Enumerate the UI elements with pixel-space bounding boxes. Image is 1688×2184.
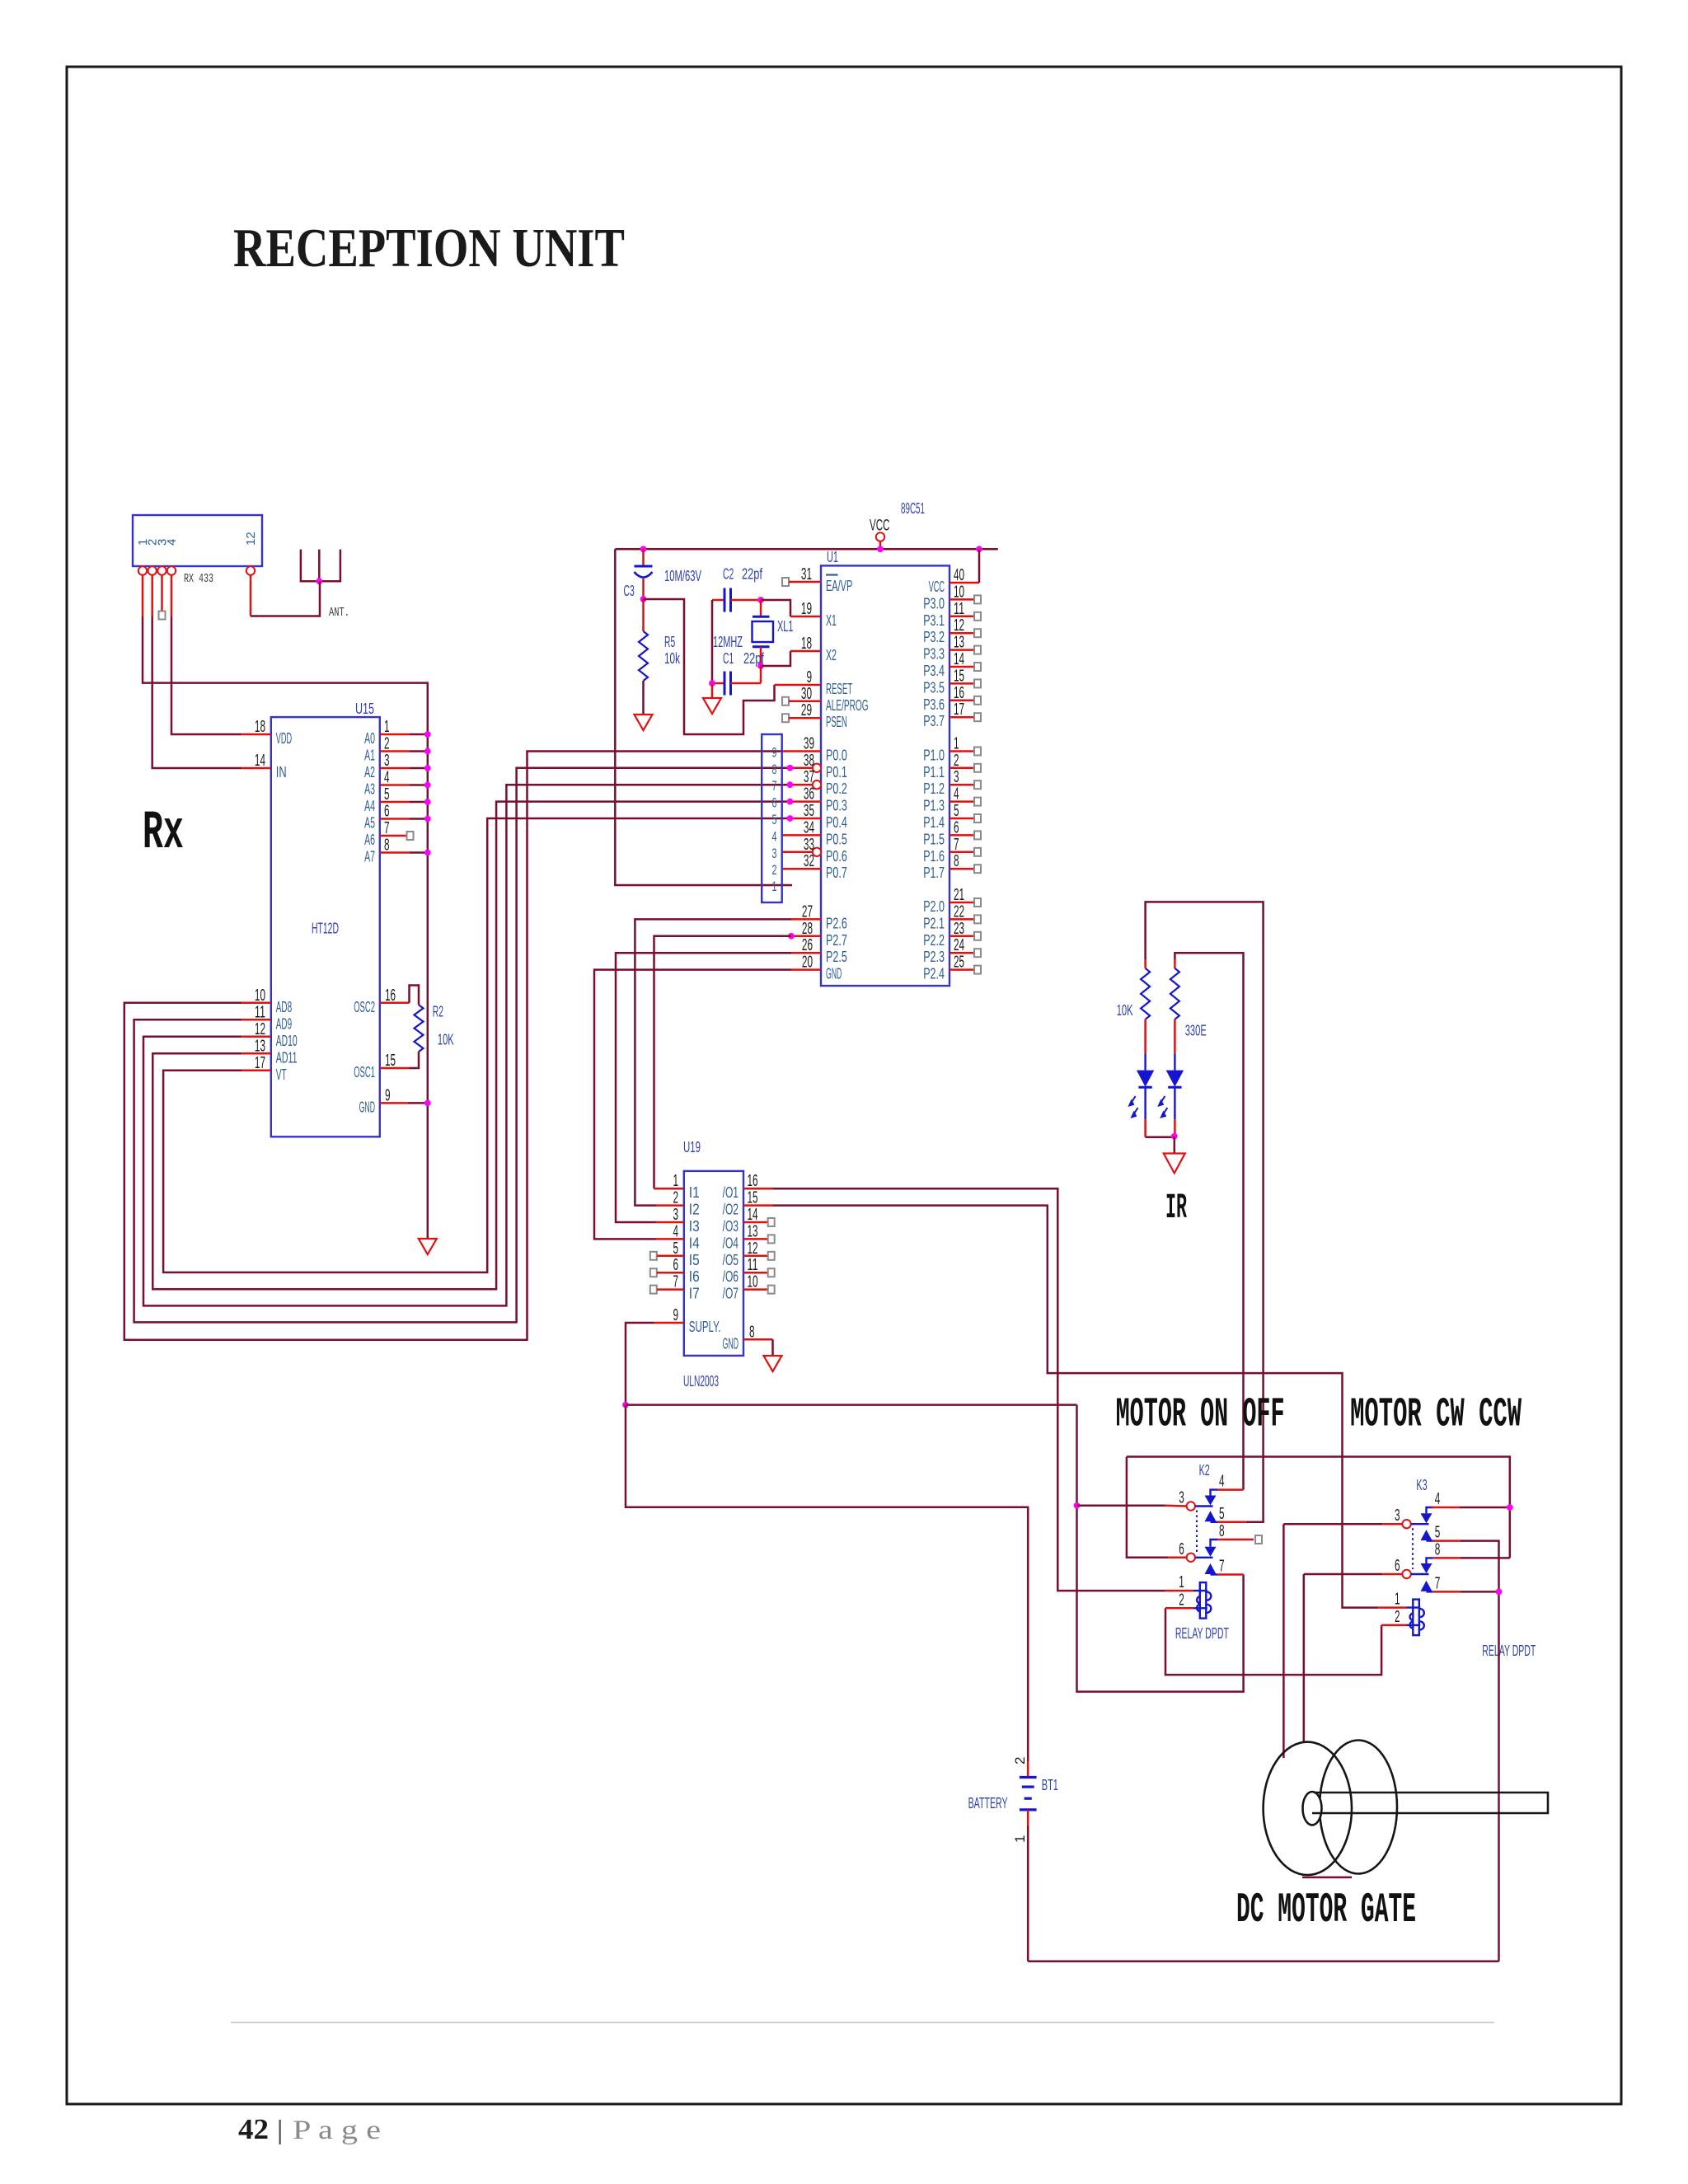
svg-text:BT1: BT1 bbox=[1042, 1777, 1058, 1793]
U1 pin 40 VCC bbox=[929, 549, 979, 595]
svg-text:SUPLY.: SUPLY. bbox=[689, 1319, 721, 1335]
svg-text:22pf: 22pf bbox=[742, 566, 763, 583]
U1 pin 35 P0.4 bbox=[787, 802, 847, 831]
wire RX pin4 to VDD bbox=[171, 616, 241, 735]
svg-text:37: 37 bbox=[804, 768, 814, 786]
U19 pin 5 I5 bbox=[650, 1240, 700, 1268]
RX433 pin 2 bbox=[146, 539, 160, 575]
svg-text:27: 27 bbox=[802, 902, 813, 921]
svg-text:EA/VP: EA/VP bbox=[826, 578, 852, 594]
svg-text:35: 35 bbox=[804, 802, 814, 820]
svg-text:AD10: AD10 bbox=[276, 1033, 298, 1049]
svg-text:12: 12 bbox=[748, 1240, 758, 1258]
svg-text:28: 28 bbox=[802, 920, 813, 938]
svg-text:I5: I5 bbox=[689, 1252, 700, 1268]
U1 pin 10 P3.0 bbox=[923, 583, 981, 612]
svg-text:PSEN: PSEN bbox=[826, 714, 847, 730]
U1 pin 20 GND bbox=[791, 954, 842, 982]
svg-text:17: 17 bbox=[954, 701, 964, 719]
svg-text:12MHZ: 12MHZ bbox=[713, 634, 743, 650]
svg-text:1: 1 bbox=[673, 1172, 678, 1190]
svg-text:U15: U15 bbox=[355, 701, 374, 717]
U19 pin 9 SUPLY. bbox=[654, 1306, 721, 1335]
U1 pin 14 P3.4 bbox=[923, 650, 981, 679]
U1 pin 3 P1.2 bbox=[923, 768, 981, 797]
svg-text:30: 30 bbox=[801, 685, 812, 703]
svg-text:14: 14 bbox=[748, 1206, 758, 1224]
svg-text:8: 8 bbox=[954, 852, 959, 870]
wire R2 to OSC1 bbox=[410, 1052, 420, 1068]
VCC net symbol bbox=[870, 518, 890, 553]
svg-text:13: 13 bbox=[954, 634, 964, 652]
U1 pin 30 ALE/PROG bbox=[782, 685, 869, 714]
ground under U19 bbox=[764, 1356, 782, 1371]
relay K2 pin4 contact bbox=[1205, 1473, 1225, 1506]
svg-text:ALE/PROG: ALE/PROG bbox=[826, 697, 869, 714]
svg-text:24: 24 bbox=[954, 936, 964, 954]
K2 pin6 net bbox=[1127, 1457, 1186, 1558]
svg-text:P2.0: P2.0 bbox=[923, 898, 945, 915]
svg-text:/O3: /O3 bbox=[723, 1218, 738, 1235]
wire K2 pin4 to R 330E bbox=[1175, 953, 1243, 1489]
svg-text:18: 18 bbox=[801, 635, 812, 653]
svg-text:I6: I6 bbox=[689, 1268, 700, 1285]
bus connector pin 5 bbox=[772, 812, 777, 827]
LED D2 (IR) bbox=[1159, 1053, 1184, 1119]
relay K2 pin5 contact bbox=[1205, 1505, 1225, 1523]
svg-text:/O7: /O7 bbox=[723, 1286, 738, 1302]
svg-text:34: 34 bbox=[804, 818, 814, 837]
svg-text:22: 22 bbox=[954, 902, 964, 921]
svg-text:BATTERY: BATTERY bbox=[968, 1795, 1008, 1811]
U1 pin 9 RESET bbox=[806, 668, 852, 697]
relay K2 label bbox=[1199, 1462, 1210, 1479]
svg-text:25: 25 bbox=[954, 954, 964, 972]
svg-text:P1.3: P1.3 bbox=[923, 798, 945, 814]
U19 refdes bbox=[683, 1139, 701, 1155]
U1 pin 5 P1.4 bbox=[923, 802, 981, 831]
relay K3 pole link bbox=[1412, 1528, 1414, 1569]
ANT. label bbox=[329, 606, 349, 620]
wire GND20 to I4 bbox=[594, 970, 791, 1240]
svg-text:9: 9 bbox=[673, 1306, 678, 1324]
C1 label bbox=[723, 650, 734, 667]
svg-text:GND: GND bbox=[826, 966, 842, 982]
U15 pin 18 VDD bbox=[241, 718, 292, 747]
U15 pin 17 VT bbox=[241, 1054, 287, 1083]
svg-text:22pf: 22pf bbox=[743, 650, 765, 667]
battery BT1 bbox=[1020, 1761, 1037, 1825]
wire C2 C1 left bbox=[711, 600, 714, 683]
relay K3 pin5 contact bbox=[1421, 1524, 1441, 1542]
U15 pin 6 A5 bbox=[364, 803, 431, 832]
SUPLY junction dot bbox=[622, 1402, 629, 1408]
supply junction dot K2 pin3 bbox=[1074, 1502, 1081, 1509]
wire RX pin1 to bus bbox=[143, 616, 428, 1240]
U1 pin 21 P2.0 bbox=[923, 886, 981, 915]
svg-text:P1.4: P1.4 bbox=[923, 814, 945, 831]
C3 label bbox=[624, 583, 635, 599]
RX433 pin1 red lead bbox=[142, 575, 144, 616]
relay K2 pole link bbox=[1196, 1511, 1198, 1553]
wire crystal to X2 bbox=[761, 651, 790, 666]
crystal XL1 bbox=[753, 600, 774, 666]
U1 pin 26 P2.5 bbox=[791, 936, 847, 965]
K3 pin8 stub bbox=[1433, 1557, 1510, 1559]
svg-text:R2: R2 bbox=[433, 1004, 443, 1020]
bus connector pin 4 bbox=[772, 828, 777, 844]
svg-text:23: 23 bbox=[954, 920, 964, 938]
K3 coil pin1 stub bbox=[1378, 1606, 1406, 1609]
svg-text:P0.6: P0.6 bbox=[826, 848, 847, 865]
bus connector pin 7 bbox=[772, 778, 777, 794]
U19 pin 16 /O1 bbox=[723, 1172, 773, 1201]
relay K2 type label bbox=[1175, 1625, 1229, 1642]
svg-text:Rx: Rx bbox=[143, 802, 184, 864]
K2 pin6 link wire bbox=[1127, 1457, 1510, 1558]
U1 pin 27 P2.6 bbox=[791, 902, 847, 931]
relay K3 type label bbox=[1482, 1643, 1536, 1659]
svg-text:4: 4 bbox=[772, 828, 777, 844]
svg-text:C3: C3 bbox=[624, 583, 635, 599]
svg-text:OSC1: OSC1 bbox=[354, 1064, 375, 1080]
svg-text:12: 12 bbox=[954, 616, 964, 635]
U1 pin 24 P2.3 bbox=[923, 936, 981, 965]
VCC rail bbox=[615, 548, 998, 551]
svg-text:7: 7 bbox=[1219, 1558, 1225, 1576]
svg-text:IN: IN bbox=[276, 764, 287, 780]
U1 pin 29 PSEN bbox=[782, 701, 847, 730]
svg-text:2: 2 bbox=[1012, 1757, 1028, 1765]
wire SUPLY net bbox=[626, 1323, 654, 1405]
wire ULN GND to ground bbox=[771, 1339, 774, 1356]
BT1 pin 2 label bbox=[1012, 1757, 1028, 1765]
relay K2 pin3 common bbox=[1179, 1489, 1212, 1511]
svg-text:/O1: /O1 bbox=[723, 1184, 738, 1201]
svg-text:P0.4: P0.4 bbox=[826, 814, 847, 831]
U19 pin 7 I7 bbox=[650, 1273, 700, 1302]
svg-text:GND: GND bbox=[359, 1099, 375, 1115]
svg-text:P2.6: P2.6 bbox=[826, 915, 847, 931]
svg-text:P3.4: P3.4 bbox=[923, 663, 945, 679]
svg-text:8: 8 bbox=[749, 1323, 755, 1341]
svg-text:5: 5 bbox=[954, 802, 959, 820]
U15 pin 9 GND bbox=[359, 1086, 431, 1115]
U1 pin 28 P2.7 bbox=[788, 920, 847, 949]
U1 pin 32 P0.7 bbox=[783, 852, 847, 881]
U1 pin 23 P2.2 bbox=[923, 920, 981, 949]
svg-text:12: 12 bbox=[255, 1020, 265, 1038]
svg-text:P3.7: P3.7 bbox=[923, 713, 945, 729]
10K label bbox=[1117, 1002, 1133, 1019]
svg-text:8: 8 bbox=[772, 762, 777, 777]
U1 pin 17 P3.7 bbox=[923, 701, 981, 729]
MOTOR CW CCW label bbox=[1350, 1392, 1522, 1439]
svg-text:11: 11 bbox=[954, 600, 964, 618]
svg-text:13: 13 bbox=[748, 1222, 758, 1240]
svg-text:/O5: /O5 bbox=[723, 1252, 738, 1268]
svg-text:P2.1: P2.1 bbox=[923, 915, 945, 931]
bottom rail bbox=[1028, 1961, 1498, 1963]
wire P2.5 to I3 bbox=[616, 953, 791, 1222]
resistor R5 bbox=[639, 599, 648, 715]
svg-text:XL1: XL1 bbox=[777, 618, 794, 635]
svg-text:10K: 10K bbox=[1117, 1002, 1133, 1019]
svg-text:P0.5: P0.5 bbox=[826, 831, 847, 847]
ground under R5 bbox=[635, 715, 653, 730]
svg-text:4: 4 bbox=[673, 1222, 678, 1240]
RX433 module box bbox=[133, 515, 262, 566]
U15 pin 13 AD11 bbox=[241, 1037, 297, 1066]
U19 pin 4 I4 bbox=[656, 1222, 700, 1251]
svg-text:10: 10 bbox=[255, 987, 265, 1005]
svg-text:VDD: VDD bbox=[276, 730, 292, 747]
bus connector pin 2 bbox=[772, 862, 777, 878]
svg-text:15: 15 bbox=[748, 1189, 758, 1207]
svg-text:R5: R5 bbox=[664, 634, 675, 650]
svg-text:31: 31 bbox=[801, 565, 812, 583]
svg-text:8: 8 bbox=[1435, 1540, 1441, 1558]
relay K3 pin6 common bbox=[1395, 1557, 1428, 1578]
svg-text:4: 4 bbox=[165, 539, 179, 546]
K3 pin7 net bbox=[1433, 1589, 1503, 1596]
svg-text:P1.1: P1.1 bbox=[923, 764, 945, 780]
svg-text:ANT.: ANT. bbox=[329, 606, 349, 620]
svg-text:2: 2 bbox=[1179, 1591, 1184, 1609]
K2 pin3 stub bbox=[1165, 1505, 1187, 1507]
svg-text:/O2: /O2 bbox=[723, 1202, 738, 1218]
X1 red stub bbox=[790, 616, 821, 618]
svg-text:ULN2003: ULN2003 bbox=[683, 1373, 719, 1390]
svg-text:2: 2 bbox=[1395, 1608, 1400, 1626]
svg-text:16: 16 bbox=[954, 684, 964, 702]
C2 value 22pf bbox=[742, 566, 763, 583]
U19 pin 11 /O6 bbox=[723, 1256, 775, 1285]
resistor R2 bbox=[415, 1005, 424, 1052]
U19 pin 14 /O3 bbox=[723, 1206, 775, 1235]
U1 pin 6 P1.5 bbox=[923, 818, 981, 847]
ground under C1 bbox=[703, 683, 721, 714]
U15 pin 8 A7 bbox=[364, 837, 431, 865]
svg-text:A7: A7 bbox=[364, 849, 375, 865]
U15 pin 11 AD9 bbox=[241, 1003, 292, 1032]
relay K2 pin6 common bbox=[1179, 1540, 1212, 1562]
svg-text:3: 3 bbox=[954, 768, 959, 786]
svg-text:32: 32 bbox=[804, 852, 814, 870]
bus connector pin 6 bbox=[772, 795, 777, 811]
svg-text:P2.5: P2.5 bbox=[826, 949, 847, 965]
svg-text:5: 5 bbox=[673, 1240, 678, 1258]
U15 pin 3 A2 bbox=[364, 752, 431, 780]
U15 refdes bbox=[355, 701, 374, 717]
U1 pin 11 P3.1 bbox=[923, 600, 981, 629]
relay K2 pin8 contact bbox=[1205, 1522, 1225, 1557]
svg-text:3: 3 bbox=[772, 846, 777, 861]
LED D2 bottom lead bbox=[1174, 1119, 1176, 1136]
wire K2 pin5 to R 10K bbox=[1146, 902, 1264, 1521]
RX433 pin2 red lead bbox=[151, 575, 153, 616]
R2 label bbox=[433, 1004, 443, 1020]
svg-text:6: 6 bbox=[673, 1256, 678, 1274]
wire AD9 loop bbox=[134, 768, 790, 1323]
U1 pin 38 P0.1 bbox=[787, 752, 847, 780]
svg-text:P2.2: P2.2 bbox=[923, 932, 945, 949]
U15 pin 12 AD10 bbox=[241, 1020, 297, 1049]
svg-text:P1.5: P1.5 bbox=[923, 831, 945, 847]
svg-text:P2.3: P2.3 bbox=[923, 949, 945, 965]
svg-text:A1: A1 bbox=[364, 748, 375, 764]
svg-text:K3: K3 bbox=[1416, 1477, 1427, 1493]
svg-text:6: 6 bbox=[772, 795, 777, 811]
svg-text:10k: 10k bbox=[664, 650, 681, 667]
K3 coil pin2 stub bbox=[1381, 1624, 1406, 1627]
U1 pin 22 P2.1 bbox=[923, 902, 981, 931]
svg-text:A6: A6 bbox=[364, 832, 375, 848]
title RECEPTION UNIT bbox=[233, 218, 625, 279]
svg-text:11: 11 bbox=[748, 1256, 758, 1274]
U1 pin 15 P3.5 bbox=[923, 667, 981, 696]
svg-text:P1.2: P1.2 bbox=[923, 780, 945, 797]
capacitor C1 bbox=[712, 666, 761, 696]
svg-text:RELAY DPDT: RELAY DPDT bbox=[1175, 1625, 1229, 1642]
U19 pin 3 I3 bbox=[656, 1206, 700, 1235]
svg-text:1: 1 bbox=[1179, 1573, 1184, 1591]
U1 pin 37 P0.2 bbox=[787, 768, 847, 797]
U1 pin 2 P1.1 bbox=[923, 752, 981, 780]
U19 pin 6 I6 bbox=[650, 1256, 700, 1285]
U19 pin 12 /O5 bbox=[723, 1240, 775, 1268]
K2 pin7 stub bbox=[1217, 1573, 1244, 1576]
svg-text:VT: VT bbox=[276, 1066, 287, 1083]
svg-text:5: 5 bbox=[1219, 1505, 1225, 1523]
svg-text:P0.0: P0.0 bbox=[826, 748, 847, 764]
IC U1 89C51 box bbox=[821, 565, 949, 986]
R5 value 10k bbox=[664, 650, 681, 667]
K2 pin8 stub bbox=[1217, 1535, 1262, 1544]
wire reset net bbox=[644, 599, 775, 734]
RX433 pin 3 bbox=[156, 539, 170, 575]
svg-text:10K: 10K bbox=[438, 1031, 454, 1047]
svg-text:P2.7: P2.7 bbox=[826, 932, 847, 949]
svg-text:26: 26 bbox=[802, 936, 813, 954]
svg-text:RELAY DPDT: RELAY DPDT bbox=[1482, 1643, 1536, 1659]
svg-text:14: 14 bbox=[954, 650, 964, 668]
svg-text:10: 10 bbox=[954, 583, 964, 601]
svg-text:7: 7 bbox=[384, 819, 390, 837]
svg-text:3: 3 bbox=[1395, 1507, 1400, 1525]
IR label bbox=[1165, 1188, 1187, 1228]
svg-text:X2: X2 bbox=[826, 647, 837, 663]
antenna junction dot bbox=[316, 578, 322, 584]
IC U15 HT12D box bbox=[271, 717, 380, 1137]
svg-text:89C51: 89C51 bbox=[901, 500, 925, 517]
svg-text:U1: U1 bbox=[827, 549, 838, 565]
svg-text:2: 2 bbox=[673, 1189, 678, 1207]
relay K3 label bbox=[1416, 1477, 1427, 1493]
ground under IR leds bbox=[1164, 1154, 1185, 1174]
svg-text:X1: X1 bbox=[826, 612, 837, 629]
svg-text:15: 15 bbox=[385, 1052, 396, 1070]
svg-text:7: 7 bbox=[673, 1273, 678, 1291]
X2 red stub bbox=[790, 650, 821, 653]
svg-text:40: 40 bbox=[954, 566, 964, 584]
RX433 pin12 red lead bbox=[250, 575, 252, 616]
U19 pin 8 GND bbox=[723, 1323, 773, 1352]
K2 coil pin1 stub bbox=[1165, 1590, 1193, 1592]
svg-text:17: 17 bbox=[255, 1054, 265, 1072]
svg-text:HT12D: HT12D bbox=[312, 921, 339, 937]
wire supply to battery plus bbox=[626, 1405, 1028, 1761]
svg-text:1: 1 bbox=[954, 735, 959, 753]
svg-text:I2: I2 bbox=[689, 1202, 700, 1218]
svg-text:I3: I3 bbox=[689, 1218, 700, 1235]
wire /O2 to K3 coil bbox=[773, 1206, 1379, 1608]
svg-text:9: 9 bbox=[806, 668, 812, 687]
svg-text:36: 36 bbox=[804, 785, 814, 804]
svg-text:42: 42 bbox=[238, 2113, 269, 2145]
U1 pin 12 P3.2 bbox=[923, 616, 981, 645]
svg-text:2: 2 bbox=[772, 862, 777, 878]
svg-text:P3.2: P3.2 bbox=[923, 629, 945, 645]
wire AD10 loop bbox=[143, 785, 790, 1305]
wire C2 to X1 bbox=[761, 600, 790, 616]
330E label bbox=[1185, 1022, 1207, 1038]
relay K2 coil bbox=[1179, 1573, 1211, 1619]
U15 pin 14 IN bbox=[241, 752, 287, 780]
wire RX pin12 to antenna bbox=[251, 581, 320, 616]
svg-text:AD8: AD8 bbox=[276, 999, 292, 1015]
svg-text:A4: A4 bbox=[364, 798, 375, 814]
DC motor hub bbox=[1303, 1792, 1322, 1825]
svg-text:6: 6 bbox=[1395, 1557, 1400, 1575]
svg-text:GND: GND bbox=[723, 1335, 738, 1352]
K3 pin3 net bbox=[1283, 1524, 1402, 1758]
svg-text:4: 4 bbox=[384, 769, 390, 787]
svg-text:DC MOTOR GATE: DC MOTOR GATE bbox=[1236, 1887, 1416, 1934]
U15 pin 2 A1 bbox=[364, 735, 431, 764]
svg-text:12: 12 bbox=[244, 532, 258, 546]
U1 pin 16 P3.6 bbox=[923, 684, 981, 713]
BATTERY label bbox=[968, 1795, 1008, 1811]
svg-text:4: 4 bbox=[954, 785, 959, 804]
C3 value bbox=[664, 568, 701, 584]
MOTOR ON OFF label bbox=[1116, 1392, 1285, 1439]
wire AD11 loop bbox=[152, 802, 790, 1290]
svg-text:VCC: VCC bbox=[870, 518, 890, 535]
U1 pin 36 P0.3 bbox=[787, 785, 847, 814]
svg-text:1: 1 bbox=[772, 879, 777, 894]
svg-text:A5: A5 bbox=[364, 815, 375, 832]
wire supply branch down bbox=[1077, 1405, 1244, 1692]
svg-text:P3.6: P3.6 bbox=[923, 696, 945, 713]
antenna symbol bbox=[301, 550, 340, 582]
svg-text:20: 20 bbox=[802, 954, 813, 972]
svg-text:IR: IR bbox=[1165, 1188, 1187, 1228]
svg-text:P1.6: P1.6 bbox=[923, 848, 945, 865]
svg-text:18: 18 bbox=[255, 718, 265, 736]
wire supply rail right bbox=[626, 1404, 1077, 1406]
U1 pin 1 P1.0 bbox=[923, 735, 981, 764]
relay K3 pin3 common bbox=[1395, 1507, 1428, 1528]
U1 pin 13 P3.3 bbox=[923, 634, 981, 663]
U19 pin 1 I1 bbox=[654, 1172, 700, 1201]
relay K3 pin4 contact bbox=[1421, 1490, 1441, 1523]
svg-text:P2.4: P2.4 bbox=[923, 966, 945, 982]
BT1 refdes bbox=[1042, 1777, 1058, 1793]
svg-text:1: 1 bbox=[1012, 1835, 1028, 1843]
U1 pin 4 P1.3 bbox=[923, 785, 981, 814]
svg-text:AD11: AD11 bbox=[276, 1049, 298, 1066]
